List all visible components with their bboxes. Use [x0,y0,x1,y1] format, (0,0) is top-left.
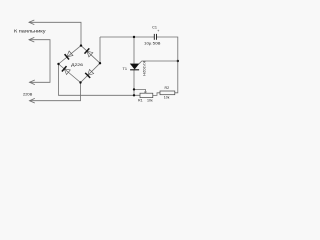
svg-text:КУ202Н: КУ202Н [142,61,146,76]
wire right branch gate node down to R2 [175,61,178,93]
resistor R2 body [160,91,175,95]
node anode tap on top rail [133,36,135,38]
wire bridge right node up to top rail [99,37,101,63]
bridge edge left-bottom [59,64,81,83]
thyristor T1 gate lead [139,61,178,64]
node bridge left [57,63,59,65]
wire thyristor anode branch [133,37,135,64]
wire top from iron terminal to bridge top [29,22,81,45]
resistor R1 body (potentiometer) [140,93,153,97]
bridge edge top-right [81,46,100,64]
arrow terminal 1 (to soldering iron) [29,20,34,25]
node bridge top [80,44,82,46]
svg-text:К паяльнику: К паяльнику [14,28,46,33]
svg-text:10к: 10к [147,98,153,102]
thyristor T1 cathode bar [130,69,139,71]
svg-text:220В: 220В [23,92,33,97]
node cathode to bottom rail [133,94,135,96]
node bridge right [99,62,101,64]
bridge edge top-left [59,46,82,64]
diode VD4 cathode bar [85,73,90,78]
diode VD2 triangle (top-right edge) [87,51,93,57]
svg-text:+: + [157,29,159,33]
arrow terminal 2 (to soldering iron) [29,37,34,42]
arrow terminal 4 (220V mains) [30,98,35,103]
thyristor T1 triangle [130,64,139,70]
bridge edge bottom-right [81,63,101,82]
svg-text:Т1: Т1 [123,67,128,71]
svg-text:10µ 50В: 10µ 50В [144,41,161,45]
diode VD3 triangle (left-bottom edge) [64,69,70,75]
svg-text:10к: 10к [164,95,170,99]
diode VD3 cathode bar [62,66,67,71]
svg-text:Д226: Д226 [71,62,83,67]
capacitor C1 plates [154,34,156,40]
wire top DC rail to capacitor C1 [100,36,154,38]
wire bridge left node down to bottom rail [59,64,141,95]
wire iron terminal 2 to mains jumper [29,40,50,83]
arrow terminal 3 (220V mains) [30,80,35,85]
wire thyristor cathode to bottom rail [133,70,135,96]
resistor R1 wiper arrow [144,92,146,94]
wire R1 to R2 jog [153,93,160,96]
diode VD1 cathode bar [65,54,69,59]
wire capacitor C1 to right branch [157,37,178,61]
node gate junction [177,60,179,62]
diode VD2 cathode bar [85,48,90,53]
wire R1 wiper feed [134,89,145,92]
diode VD1 triangle (top-left edge) [67,51,73,57]
svg-text:R2: R2 [165,86,170,90]
node wiper tap [133,88,135,90]
svg-text:R1: R1 [138,98,143,102]
wire 220V terminal to bridge bottom [30,83,81,101]
diode VD4 triangle (bottom-right edge) [88,69,94,75]
node bridge bottom [79,81,81,83]
